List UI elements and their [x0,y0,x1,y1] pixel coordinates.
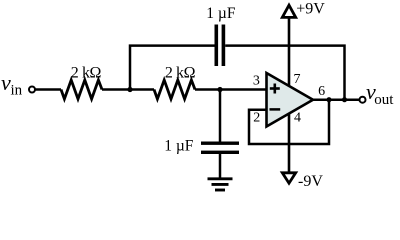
wire [195,88,267,91]
svg-text:1 µF: 1 µF [206,5,236,22]
wire down from node B [219,90,222,142]
svg-text:3: 3 [253,74,260,89]
svg-text:7: 7 [294,72,301,87]
-9V supply triangle [282,173,295,183]
wire [102,88,154,91]
svg-text:1 µF: 1 µF [164,137,194,154]
ground [208,177,233,180]
op-amp U1 body [267,73,314,127]
+9V supply triangle [282,5,295,17]
svg-text:2: 2 [253,111,260,126]
svg-text:6: 6 [318,84,325,99]
node vin terminal [29,87,35,93]
+9V supply stem [288,18,291,87]
resistor R1 [61,80,102,99]
node vout terminal [360,97,366,103]
wire C2 to ground [219,154,222,179]
svg-text:out: out [374,92,394,108]
capacitor C2 plates [201,142,239,145]
resistor R2 [154,80,195,99]
node B junction dot [217,87,222,92]
svg-text:in: in [11,83,23,99]
node feedback junction dot [326,97,331,102]
wire from C1 to output riser [225,46,344,100]
svg-text:2 kΩ: 2 kΩ [165,65,196,82]
svg-text:4: 4 [294,111,301,126]
wire [35,88,61,91]
output wire [313,98,360,101]
node output junction dot [342,97,347,102]
-9V supply stem [288,114,291,173]
node A junction dot [127,87,132,92]
op-amp plus input symbol [270,87,280,90]
feedback wire [249,100,329,144]
svg-text:-9V: -9V [298,173,323,190]
op-amp minus input symbol [270,108,281,111]
svg-text:v: v [1,70,11,95]
svg-text:2 kΩ: 2 kΩ [71,64,102,81]
svg-text:+9V: +9V [296,1,325,18]
wire riser from node A [130,46,215,90]
capacitor C1 plates [215,25,219,67]
